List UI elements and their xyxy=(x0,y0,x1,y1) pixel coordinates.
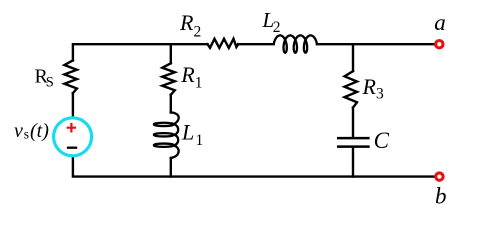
svg-text:2: 2 xyxy=(194,23,202,40)
svg-text:(t): (t) xyxy=(30,120,49,142)
svg-text:C: C xyxy=(374,128,390,153)
svg-text:R: R xyxy=(179,10,194,35)
svg-text:v: v xyxy=(14,120,23,142)
svg-text:2: 2 xyxy=(273,19,281,36)
svg-text:1: 1 xyxy=(196,132,204,149)
svg-text:L: L xyxy=(181,120,194,145)
svg-text:1: 1 xyxy=(195,75,203,92)
svg-text:R: R xyxy=(362,74,377,99)
svg-text:b: b xyxy=(435,184,447,209)
svg-text:3: 3 xyxy=(376,86,384,103)
svg-text:R: R xyxy=(180,62,195,87)
svg-text:s: s xyxy=(24,127,29,142)
svg-text:a: a xyxy=(434,10,446,35)
svg-text:S: S xyxy=(46,75,54,91)
